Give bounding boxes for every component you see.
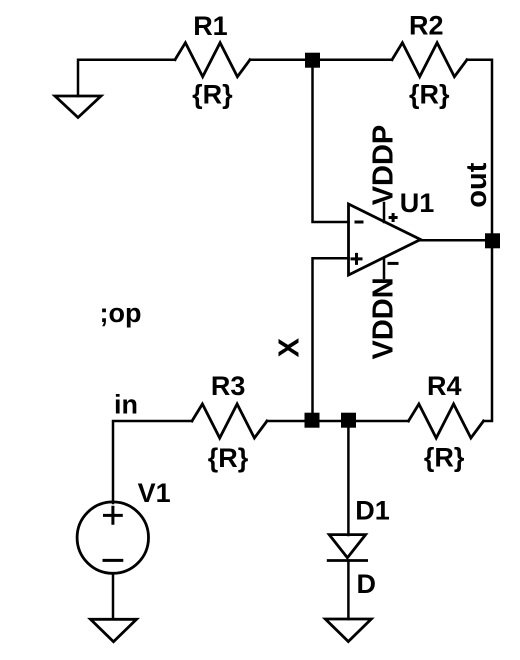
wire [113, 421, 192, 503]
resistor R1 [175, 11, 250, 110]
node (X junction) [305, 413, 320, 428]
svg-text:in: in [114, 390, 138, 420]
svg-text:R3: R3 [211, 371, 246, 401]
wire [347, 561, 350, 620]
wire [78, 60, 175, 96]
wire [421, 239, 493, 242]
svg-text:R4: R4 [427, 371, 462, 401]
svg-text:R1: R1 [193, 11, 228, 41]
ground [91, 619, 137, 641]
node (R1/R2/feedback junction) [305, 53, 320, 68]
resistor R2 [392, 11, 467, 110]
svg-text:U1: U1 [400, 188, 435, 218]
svg-text:{R}: {R} [192, 80, 233, 110]
svg-text:{R}: {R} [424, 443, 465, 473]
wire [347, 421, 350, 535]
wire [112, 574, 115, 620]
svg-text:{R}: {R} [208, 443, 249, 473]
svg-text:R2: R2 [409, 11, 444, 41]
wire [267, 420, 409, 423]
op-amp U1 [349, 188, 435, 278]
svg-text:V1: V1 [138, 478, 171, 508]
node (D1 junction) [341, 413, 356, 428]
voltage source V1 [77, 478, 171, 573]
svg-text:out: out [461, 162, 493, 207]
svg-text:X: X [274, 337, 306, 357]
wire [313, 60, 349, 222]
wire [484, 240, 493, 421]
wire [313, 258, 349, 421]
svg-text:VDDN: VDDN [368, 277, 400, 359]
svg-text:D: D [357, 569, 377, 599]
node out [485, 233, 500, 248]
resistor R4 [409, 371, 484, 473]
wire [250, 58, 392, 61]
ground [55, 96, 101, 118]
diode D1 [328, 496, 390, 600]
wire [467, 60, 492, 241]
ground [325, 619, 371, 642]
resistor R3 [192, 371, 267, 473]
svg-text:;op: ;op [100, 298, 142, 328]
svg-text:VDDP: VDDP [368, 125, 400, 206]
svg-text:{R}: {R} [409, 80, 450, 110]
svg-text:D1: D1 [355, 496, 390, 526]
